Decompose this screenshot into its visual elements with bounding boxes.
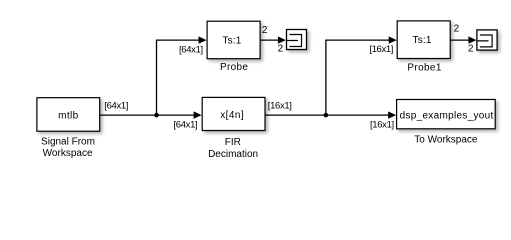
arrowhead into FIR Decimation	[194, 111, 202, 118]
svg-text:Probe: Probe	[220, 62, 248, 73]
svg-text:To Workspace: To Workspace	[414, 135, 478, 146]
block: terminator icon 2 (stair glyph)	[476, 30, 497, 50]
svg-text:dsp_examples_yout: dsp_examples_yout	[400, 111, 494, 122]
wire: Probe1 output to terminator icon 2	[451, 39, 470, 41]
arrowhead into icon 2	[468, 36, 476, 43]
wire: Probe output to terminator icon 1	[261, 39, 279, 41]
wire: FIR Decimation output to To Workspace input	[266, 114, 390, 116]
arrowhead into icon 1	[278, 36, 286, 43]
svg-text:Ts:1: Ts:1	[222, 36, 241, 47]
arrowhead into To Workspace	[388, 111, 396, 118]
svg-text:FIR: FIR	[225, 137, 241, 148]
svg-text:x[4n]: x[4n]	[220, 110, 244, 121]
arrowhead into Probe	[199, 36, 207, 43]
svg-text:2: 2	[454, 24, 460, 35]
wire: branch up from junction to Probe input	[157, 40, 200, 115]
block: To Workspace sink	[397, 100, 496, 129]
svg-text:mtlb: mtlb	[58, 111, 79, 122]
block: Probe1	[397, 21, 450, 59]
svg-text:Workspace: Workspace	[43, 148, 93, 159]
svg-text:[16x1]: [16x1]	[370, 119, 394, 130]
svg-text:Decimation: Decimation	[208, 149, 258, 160]
svg-text:2: 2	[262, 25, 268, 36]
wire: branch up from junction 2 to Probe1 input	[326, 40, 389, 115]
block: Signal From Workspace source (mtlb)	[37, 98, 100, 132]
node: branch junction on FIR output	[324, 113, 329, 118]
svg-text:[16x1]: [16x1]	[369, 44, 393, 55]
svg-text:[64x1]: [64x1]	[174, 120, 198, 131]
svg-text:Ts:1: Ts:1	[413, 35, 432, 46]
svg-text:[64x1]: [64x1]	[179, 44, 203, 55]
svg-text:Probe1: Probe1	[407, 62, 441, 73]
svg-text:2: 2	[468, 43, 474, 54]
block: Probe	[207, 21, 260, 59]
arrowhead into Probe1	[389, 36, 397, 43]
svg-text:[16x1]: [16x1]	[268, 100, 292, 111]
node: branch junction on mtlb output	[154, 113, 159, 118]
block: FIR Decimation	[202, 97, 265, 130]
svg-text:2: 2	[278, 44, 284, 55]
svg-text:Signal From: Signal From	[41, 136, 95, 147]
svg-text:[64x1]: [64x1]	[104, 100, 128, 111]
wire: mtlb output to FIR Decimation input	[100, 114, 195, 116]
block: terminator icon 1 (stair glyph)	[286, 30, 307, 50]
